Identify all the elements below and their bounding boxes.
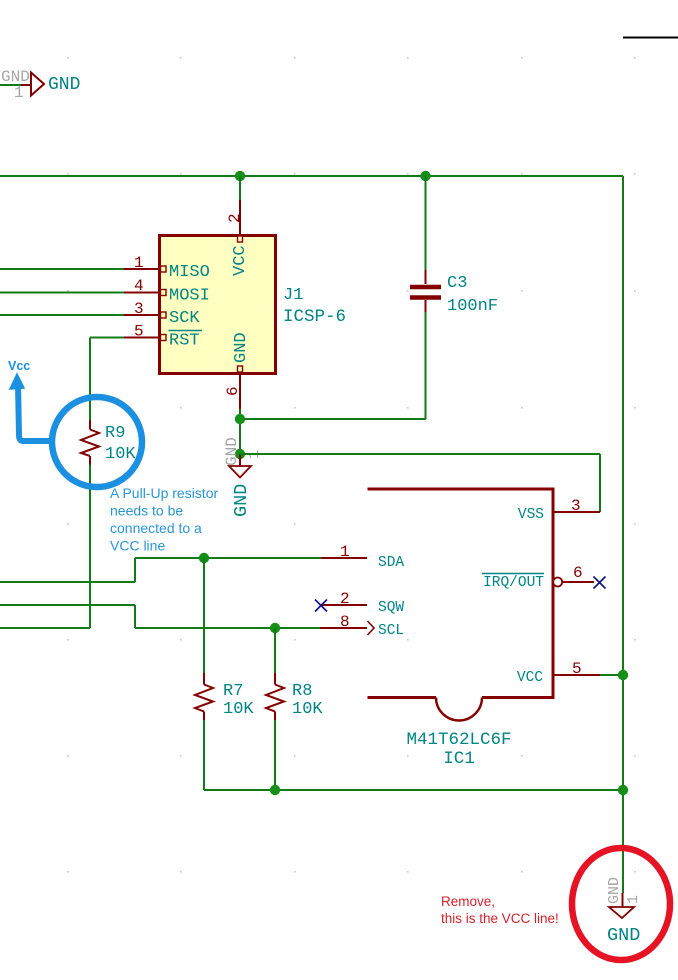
- annotation text Vcc: [8, 359, 30, 373]
- svg-text:R8: R8: [292, 682, 312, 701]
- label R7 10K: [223, 682, 254, 719]
- pin 6 GND: [224, 332, 251, 409]
- wire R8 top: [274, 628, 276, 673]
- svg-text:RST: RST: [169, 332, 200, 351]
- IC IC1 body: [368, 489, 554, 721]
- svg-text:5: 5: [572, 660, 582, 678]
- junction: [235, 171, 245, 181]
- svg-text:VCC: VCC: [517, 670, 543, 686]
- svg-text:8: 8: [340, 613, 350, 631]
- annotation blue circle around R9: [52, 397, 142, 487]
- wire VCC right vertical: [622, 176, 624, 893]
- svg-text:2: 2: [340, 590, 350, 608]
- svg-text:GND: GND: [223, 437, 241, 466]
- svg-text:GND: GND: [231, 484, 252, 517]
- wire VCC top horizontal: [0, 175, 623, 177]
- pin 3 SCK: [124, 300, 200, 328]
- svg-text:2: 2: [226, 213, 244, 223]
- junction: [235, 414, 245, 424]
- svg-text:GND: GND: [232, 332, 251, 363]
- svg-text:SQW: SQW: [378, 600, 404, 616]
- wire SCL: [0, 605, 320, 628]
- pin 1 MISO: [124, 254, 210, 282]
- svg-text:1: 1: [625, 895, 642, 904]
- wire to J1 pin 2: [239, 176, 241, 200]
- connector J1 body: [160, 236, 276, 374]
- svg-text:100nF: 100nF: [447, 297, 498, 316]
- svg-text:IRQ/OUT: IRQ/OUT: [483, 575, 544, 591]
- no-connect X on SQW: [315, 600, 327, 612]
- pin 1 SDA: [321, 543, 404, 571]
- svg-text:5: 5: [134, 323, 144, 341]
- pin 3 VSS: [518, 497, 600, 523]
- svg-text:A Pull-Up resistor: A Pull-Up resistor: [110, 485, 218, 501]
- pin 4 MOSI: [124, 277, 210, 306]
- resistor R8: [266, 673, 284, 720]
- wire RST to R9: [90, 338, 124, 421]
- power symbol GND (below J1): [223, 437, 263, 517]
- reference IC1: [443, 749, 475, 769]
- svg-text:needs to be: needs to be: [110, 503, 183, 519]
- annotation blue arrow to Vcc: [10, 374, 52, 441]
- no-connect X on IRQ/OUT: [594, 577, 606, 589]
- annotation text remove note: [441, 894, 559, 926]
- svg-text:GND: GND: [48, 75, 80, 95]
- junction: [199, 553, 209, 563]
- value M41T62LC6F: [406, 730, 511, 750]
- svg-text:M41T62LC6F: M41T62LC6F: [406, 730, 511, 750]
- capacitor C3: [410, 176, 441, 419]
- wire R8 bottom: [274, 720, 276, 790]
- power pin GND 1 (gray): [1, 68, 30, 102]
- junction: [270, 623, 280, 633]
- svg-text:MOSI: MOSI: [169, 287, 210, 306]
- resistor R9: [81, 420, 99, 465]
- pin 6 IRQ/OUT: [482, 564, 594, 591]
- resistor R7: [195, 673, 213, 720]
- svg-text:SDA: SDA: [378, 555, 404, 571]
- wire VCC pin to right bus: [600, 674, 623, 676]
- hierarchical label GND: [31, 73, 80, 96]
- svg-text:GND: GND: [606, 877, 623, 904]
- svg-text:1: 1: [14, 84, 24, 102]
- annotation red ellipse around GND: [572, 848, 670, 960]
- wire MISO: [0, 268, 124, 270]
- reference J1: [283, 286, 303, 305]
- svg-text:ICSP-6: ICSP-6: [283, 307, 346, 327]
- value ICSP-6: [283, 307, 346, 327]
- svg-text:connected to a: connected to a: [110, 520, 202, 536]
- svg-text:GND: GND: [607, 925, 640, 946]
- wire bottom bus: [204, 789, 623, 791]
- wire GND to VSS: [240, 454, 600, 512]
- junction: [270, 785, 280, 795]
- svg-text:6: 6: [573, 564, 583, 582]
- wire: [0, 84, 31, 86]
- svg-text:VCC: VCC: [231, 245, 250, 276]
- svg-text:SCK: SCK: [169, 309, 200, 328]
- svg-text:6: 6: [224, 386, 242, 396]
- junction: [618, 670, 628, 680]
- pin 8 SCL: [320, 613, 404, 639]
- wire SDA: [0, 558, 321, 582]
- svg-text:R7: R7: [223, 682, 243, 701]
- svg-text:3: 3: [571, 497, 581, 515]
- svg-text:Remove,: Remove,: [441, 894, 495, 909]
- wire J1 pin6 to C3 bottom: [240, 409, 426, 454]
- svg-text:10K: 10K: [223, 700, 254, 719]
- sheet edge: [623, 37, 678, 39]
- svg-text:1: 1: [134, 254, 144, 272]
- svg-text:Vcc: Vcc: [8, 359, 30, 373]
- junction: [618, 785, 628, 795]
- wire MOSI: [0, 292, 124, 294]
- svg-text:SCL: SCL: [378, 623, 404, 639]
- svg-text:1: 1: [340, 543, 350, 561]
- svg-text:IC1: IC1: [443, 749, 475, 769]
- wire R9 bottom to left edge: [0, 465, 90, 629]
- label R8 10K: [292, 682, 323, 719]
- annotation text pull-up note: [110, 485, 218, 554]
- svg-text:R9: R9: [105, 424, 125, 443]
- junction: [420, 171, 430, 181]
- svg-text:VCC line: VCC line: [110, 538, 165, 554]
- svg-text:this is the VCC line!: this is the VCC line!: [441, 911, 559, 926]
- wire SCK: [0, 314, 124, 316]
- svg-text:VSS: VSS: [518, 507, 544, 523]
- svg-text:MISO: MISO: [169, 263, 210, 282]
- pin 2 SQW: [321, 590, 404, 616]
- svg-text:C3: C3: [447, 274, 467, 293]
- junction: [235, 449, 245, 459]
- svg-text:4: 4: [134, 277, 144, 295]
- pin 2 VCC: [226, 200, 250, 276]
- label R9 10K: [105, 424, 136, 464]
- label C3 100nF: [447, 274, 498, 316]
- pin 5 RST: [124, 323, 202, 351]
- svg-text:J1: J1: [283, 286, 303, 305]
- wire R7 bottom: [203, 720, 205, 790]
- svg-text:10K: 10K: [105, 445, 136, 464]
- svg-text:3: 3: [134, 300, 144, 318]
- wire R7 top: [203, 558, 205, 673]
- pin 5 VCC: [517, 660, 600, 686]
- svg-text:10K: 10K: [292, 700, 323, 719]
- power symbol GND (bottom right): [606, 877, 642, 946]
